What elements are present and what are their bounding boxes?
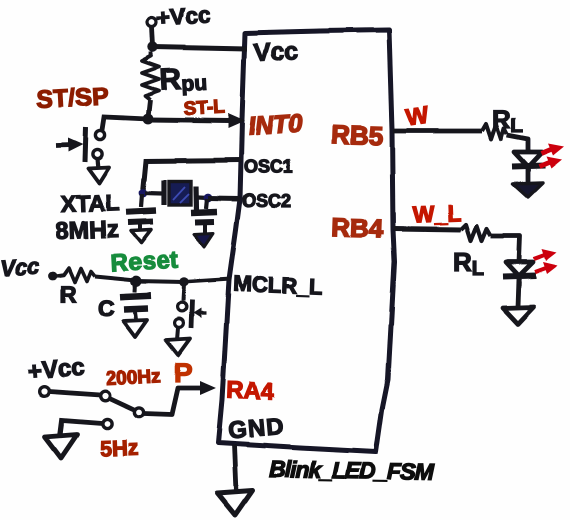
- terminal dot Vcc reset: [49, 272, 58, 281]
- ground (LED1) filled: [513, 183, 543, 198]
- svg-text:INT0: INT0: [247, 109, 303, 141]
- wire button to ground: [97, 159, 98, 170]
- LED D2 cathode bar: [503, 276, 536, 277]
- push-button ST/SP actuator bar: [85, 127, 86, 162]
- junction dot reset button: [179, 277, 189, 287]
- wire junction to button: [102, 117, 148, 130]
- wire RL to LED1: [507, 135, 528, 152]
- terminal circle +Vcc bottom: [39, 386, 49, 396]
- arrow into RA4: [200, 381, 216, 395]
- svg-text:5Hz: 5Hz: [99, 435, 139, 461]
- LED D1 light arrow 1: [541, 149, 552, 154]
- capacitor XTAL left lead: [141, 194, 142, 207]
- switch arm: [110, 399, 135, 411]
- svg-text:GND: GND: [227, 413, 285, 445]
- LED D1 light arrow 2: [539, 162, 550, 167]
- LED D1 triangle: [514, 152, 542, 167]
- terminal circle +Vcc top: [148, 18, 157, 27]
- svg-text:Vcc: Vcc: [253, 37, 299, 67]
- push-button ST/SP actuation arrow: [56, 142, 72, 147]
- junction dot ST-L: [143, 114, 154, 125]
- svg-text:P: P: [174, 357, 193, 388]
- capacitor XTAL right plates: [191, 212, 217, 213]
- svg-text:+Vcc: +Vcc: [156, 1, 212, 31]
- svg-text:ST/SP: ST/SP: [36, 82, 110, 114]
- junction dot XTAL left: [139, 189, 148, 198]
- LED D2 triangle: [506, 262, 533, 276]
- crystal XTAL right electrode: [193, 187, 199, 212]
- wire Reset node to button node: [136, 281, 184, 282]
- wire ST-L to INT0 with arrow: [148, 120, 230, 121]
- LED D1 cathode bar: [512, 166, 545, 167]
- crystal XTAL body: [169, 182, 191, 206]
- ground (GND pin): [217, 491, 252, 516]
- ground (5Hz): [45, 435, 77, 459]
- svg-text:8MHz: 8MHz: [55, 216, 119, 245]
- switch 5Hz contact: [102, 419, 111, 428]
- svg-text:RB5: RB5: [331, 119, 384, 151]
- ground (ST/SP button): [88, 167, 109, 183]
- capacitor XTAL right lead 2: [203, 224, 207, 234]
- resistor Rpu: [142, 52, 159, 100]
- svg-text:Reset: Reset: [110, 246, 179, 277]
- push-button ST/SP contact top: [95, 130, 104, 139]
- wire R to node Reset: [95, 276, 136, 280]
- svg-text:RA4: RA4: [226, 377, 276, 406]
- capacitor XTAL left lead 2: [138, 225, 142, 231]
- reset push-button contact top: [178, 303, 187, 312]
- svg-text:Rpu: Rpu: [159, 62, 208, 97]
- svg-text:ST-L: ST-L: [183, 97, 226, 120]
- svg-text:Vcc: Vcc: [0, 253, 40, 281]
- wire to Vcc pin: [153, 47, 247, 49]
- wire LED1 to ground: [526, 168, 531, 183]
- capacitor C plates: [120, 296, 151, 298]
- svg-text:OSC1: OSC1: [244, 157, 293, 177]
- svg-text:RL: RL: [453, 247, 484, 280]
- wire RL2 to LED2: [491, 236, 520, 262]
- svg-text:200Hz: 200Hz: [105, 366, 161, 390]
- crystal XTAL left electrode: [161, 180, 166, 205]
- svg-text:+Vcc: +Vcc: [27, 354, 85, 385]
- svg-text:Blink_LED_FSM: Blink_LED_FSM: [269, 456, 435, 485]
- ground (reset button): [166, 339, 190, 356]
- ground (LED2): [503, 307, 534, 324]
- reset push-button actuation arrow: [199, 311, 206, 314]
- ground (cap C): [123, 320, 147, 337]
- resistor RL (top): [482, 124, 507, 139]
- switch pole contact: [134, 408, 143, 417]
- wire GND pin down: [234, 445, 236, 492]
- capacitor XTAL right lead: [206, 199, 207, 209]
- wire reset button to ground: [177, 328, 178, 340]
- svg-text:RB4: RB4: [331, 212, 385, 244]
- node Reset junction dot: [131, 276, 142, 287]
- wire Rpu to junction: [148, 100, 150, 118]
- wire +Vcc down: [152, 27, 153, 47]
- svg-text:XTAL: XTAL: [60, 189, 119, 217]
- push-button ST/SP contact bottom: [92, 149, 101, 158]
- reset push-button wire down: [183, 284, 184, 301]
- wire 5Hz to ground: [60, 421, 102, 437]
- ground (XTAL right cap): [194, 234, 213, 248]
- resistor RL (bottom): [461, 225, 491, 241]
- capacitor C lead 2: [135, 312, 136, 320]
- ground (XTAL left cap): [131, 230, 151, 243]
- resistor R (reset): [57, 268, 95, 282]
- wire OSC1: [143, 160, 241, 192]
- wire LED2 to ground: [518, 278, 519, 307]
- capacitor XTAL left plates: [126, 211, 156, 213]
- junction dot top: [148, 42, 158, 52]
- switch 200Hz contact: [100, 391, 110, 401]
- capacitor C lead: [133, 283, 138, 292]
- svg-text:W: W: [404, 102, 431, 132]
- LED D2 light arrow 2: [535, 268, 546, 272]
- svg-text:OSC2: OSC2: [242, 191, 291, 211]
- svg-text:MCLR_L: MCLR_L: [233, 271, 323, 299]
- reset push-button actuator bar: [191, 300, 192, 328]
- wire pole to P: [144, 388, 202, 415]
- crystal XTAL lead left: [145, 191, 162, 196]
- svg-text:R: R: [60, 281, 77, 307]
- svg-text:C: C: [98, 295, 115, 321]
- wire RB4 to RL2: [394, 229, 461, 230]
- wire RB5 to RL: [393, 129, 482, 134]
- crystal XTAL lead right: [198, 195, 208, 200]
- svg-text:RL: RL: [492, 104, 523, 137]
- LED D2 light arrow 1: [534, 255, 545, 259]
- wire OSC2: [208, 196, 240, 202]
- reset push-button contact bottom: [175, 319, 184, 328]
- IC U1 Blink_LED_FSM body: [218, 30, 395, 452]
- wire +Vcc to switch pole: [49, 392, 100, 396]
- svg-text:W_L: W_L: [412, 200, 461, 228]
- wire to MCLR_L pin: [184, 279, 231, 282]
- junction dot XTAL right: [204, 194, 213, 203]
